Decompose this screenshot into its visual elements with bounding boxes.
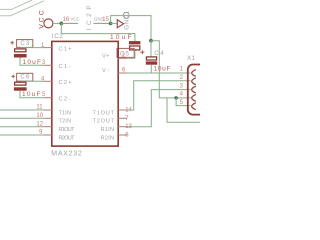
capacitor C3 plate bottom <box>14 54 27 58</box>
connector pin 2 arc <box>192 78 196 85</box>
label C3 <box>17 40 33 48</box>
pin 8 stub <box>118 134 127 136</box>
capacitor C5 plate bottom <box>130 46 140 50</box>
wire C5 to V+ <box>127 51 135 59</box>
junction dot C4 top <box>149 39 153 43</box>
svg-text:15: 15 <box>102 17 109 23</box>
pin 1 stub <box>44 47 52 49</box>
wire VCC rail to C5 <box>61 23 135 41</box>
capacitor C6 plate bottom <box>14 87 27 90</box>
wire R1OUT <box>0 126 44 128</box>
pin 12 stub <box>44 126 52 128</box>
svg-text:T2OUT: T2OUT <box>93 119 115 125</box>
svg-text:VCC: VCC <box>71 17 80 22</box>
svg-text:IC2: IC2 <box>52 33 64 40</box>
svg-text:10uF: 10uF <box>110 34 132 41</box>
svg-text:T1IN: T1IN <box>59 110 72 116</box>
svg-text:C1-: C1- <box>59 64 71 70</box>
svg-text:5: 5 <box>180 100 184 106</box>
wire GND branch to X1 pin4 <box>151 41 191 98</box>
supply VCC symbol <box>44 19 53 28</box>
junction dot GND <box>109 22 113 26</box>
svg-text:X1: X1 <box>187 55 196 62</box>
svg-text:10uF: 10uF <box>154 65 171 72</box>
svg-text:V+: V+ <box>102 54 110 60</box>
svg-text:C6: C6 <box>20 74 30 81</box>
wire R2OUT <box>0 134 44 136</box>
wire C6 to pin5 <box>20 91 44 98</box>
svg-text:10uF: 10uF <box>22 91 41 98</box>
svg-text:7: 7 <box>125 116 129 122</box>
supply GND symbol triangle <box>117 20 123 28</box>
connector pin 1 arc <box>192 70 196 77</box>
pin 2 stub <box>118 57 127 59</box>
wire pin4 to C6 <box>20 80 44 82</box>
capacitor C4 plate top <box>146 57 156 60</box>
svg-text:V-: V- <box>102 68 110 74</box>
pin 14 stub <box>118 109 127 111</box>
wire C3 to pin3 <box>20 58 44 66</box>
pin 11 stub <box>44 109 52 111</box>
connector X1 body <box>188 65 208 115</box>
capacitor C3 plate top <box>15 49 26 52</box>
label C5 <box>117 48 134 57</box>
pin 5 stub <box>44 97 52 99</box>
svg-text:R1IN: R1IN <box>101 127 115 133</box>
svg-text:C2+: C2+ <box>59 80 73 86</box>
wire dot to GND symbol <box>111 22 118 24</box>
label C6 <box>17 73 33 81</box>
junction dot X1 pin4 <box>174 96 178 100</box>
wire R1IN to X1 pin3 <box>127 90 191 127</box>
wire C4 bottom to V- net <box>150 65 152 73</box>
svg-text:4: 4 <box>180 92 184 98</box>
svg-text:C2-: C2- <box>59 97 71 103</box>
wire diagonal lower <box>0 1 44 16</box>
svg-text:16: 16 <box>63 17 70 23</box>
svg-text:C1+: C1+ <box>59 46 73 52</box>
svg-text:T1OUT: T1OUT <box>93 110 115 116</box>
pin 6 stub <box>118 72 127 74</box>
wire diagonal upper <box>0 0 32 9</box>
wire VCC to junction <box>53 22 61 24</box>
connector pin 4 arc <box>192 95 196 102</box>
pin 13 stub <box>118 126 127 128</box>
pin 3 stub <box>44 64 52 66</box>
wire pin1 to C3 <box>20 47 44 49</box>
plus sign C4 <box>140 50 144 54</box>
pin 15 stub IC2P <box>94 22 111 24</box>
pin 7 stub <box>118 117 127 119</box>
capacitor C3 plus sign <box>10 41 14 45</box>
svg-text:R2IN: R2IN <box>101 135 115 141</box>
wire to X1 pin5 <box>176 98 190 106</box>
connector pin 3 arc <box>192 86 196 93</box>
wire to X1 shield <box>167 98 200 122</box>
wire V- to X1 pin1 <box>127 72 191 74</box>
capacitor C6 plate top <box>15 82 26 85</box>
svg-text:1: 1 <box>180 67 184 73</box>
svg-text:3: 3 <box>180 83 184 89</box>
wire junction to C4 plus <box>150 41 152 57</box>
capacitor C4 plate bottom <box>146 61 157 64</box>
wire T1IN <box>0 109 44 111</box>
svg-text:R2OUT: R2OUT <box>59 135 76 141</box>
svg-text:8: 8 <box>125 133 129 139</box>
wire T1OUT to X1 pin2 <box>127 81 191 110</box>
pin 9 stub <box>44 134 52 136</box>
svg-text:IC2P: IC2P <box>86 6 93 31</box>
junction dot VCC <box>59 22 63 26</box>
svg-text:2: 2 <box>180 75 184 81</box>
pin 10 stub <box>44 117 52 119</box>
wire T2IN <box>0 117 44 119</box>
svg-text:VCC: VCC <box>38 10 45 29</box>
pin 16 stub IC2P <box>61 22 78 24</box>
pin 4 stub <box>44 80 52 82</box>
IC2 MAX232 box <box>52 41 118 146</box>
node ring on gnd rail <box>123 12 129 18</box>
svg-text:C3: C3 <box>20 40 30 47</box>
wire GND rail up and right <box>111 16 151 41</box>
svg-text:R1OUT: R1OUT <box>59 127 76 133</box>
svg-text:T2IN: T2IN <box>59 119 72 125</box>
capacitor C6 plus sign <box>11 75 15 79</box>
connector pin 5 arc <box>192 103 196 110</box>
svg-text:MAX232: MAX232 <box>51 151 82 158</box>
capacitor C5 plate top <box>129 41 140 44</box>
